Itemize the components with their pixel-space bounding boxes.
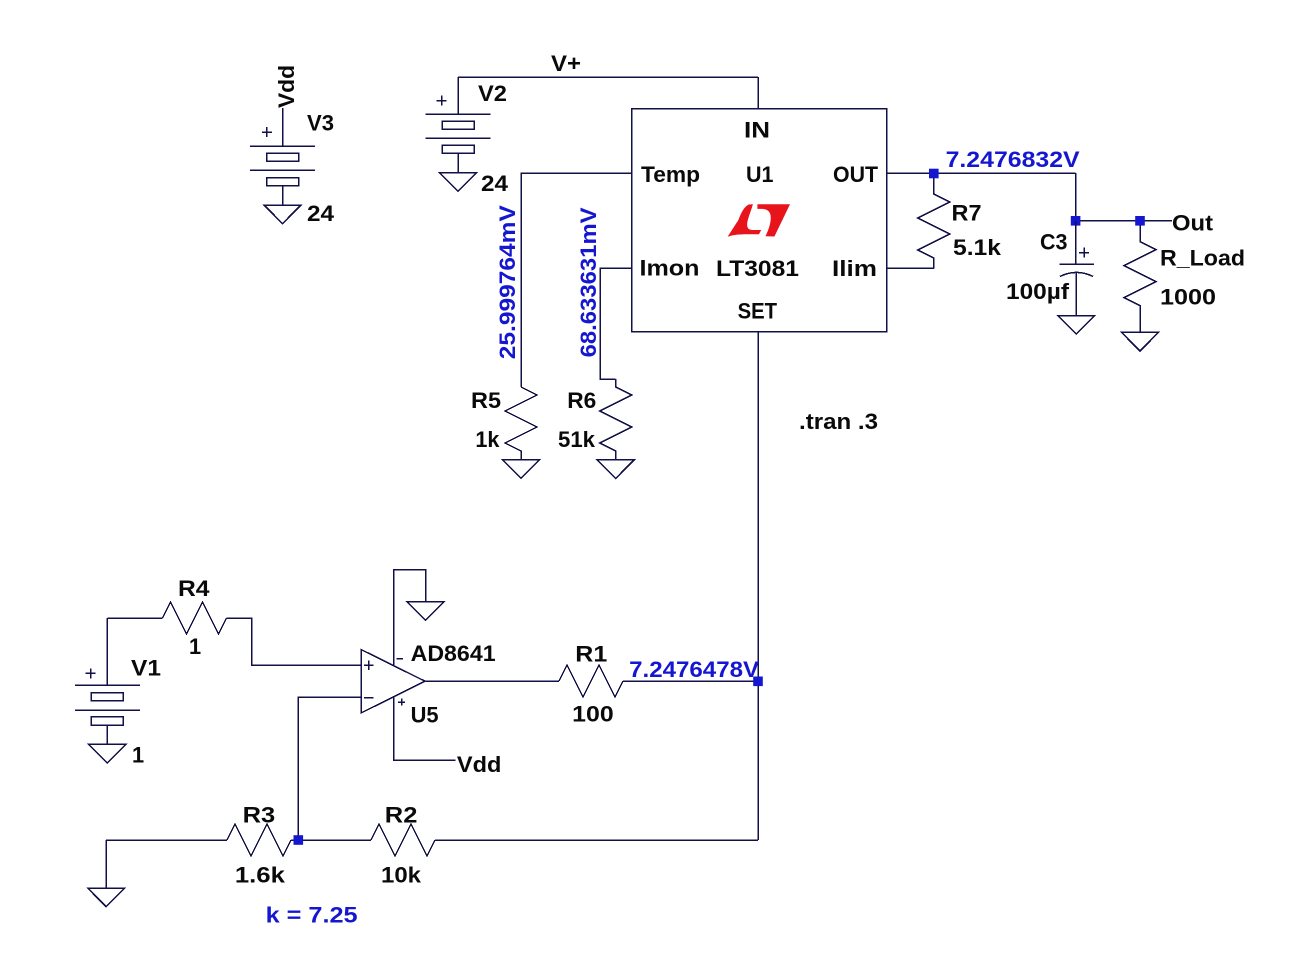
node junction (C3 top) (1071, 216, 1081, 226)
wire OUT pin to C3 branch (887, 172, 1076, 174)
voltage source V3 (250, 127, 315, 205)
resistor R6 (600, 379, 632, 460)
node junction (SET net / R1) (753, 677, 763, 687)
svg-text:U5: U5 (411, 703, 439, 728)
resistor R2 (371, 824, 435, 856)
op-amp power bottom wire to Vdd (394, 697, 456, 760)
ground (R6) (597, 460, 634, 479)
svg-text:Vdd: Vdd (274, 65, 299, 108)
svg-text:V+: V+ (551, 51, 581, 76)
resistor R_Load (1124, 225, 1156, 332)
resistor R3 (227, 824, 291, 856)
svg-text:24: 24 (481, 171, 508, 196)
wire R4 to op-amp +in (227, 618, 362, 665)
wire to ground (bottom left) (105, 840, 107, 888)
node junction (feedback) (294, 835, 304, 845)
ground (V1) (89, 744, 126, 763)
wire bottom net left (106, 839, 227, 841)
svg-text:V2: V2 (478, 81, 507, 106)
svg-text:51k: 51k (558, 427, 596, 452)
svg-text:1: 1 (189, 634, 201, 659)
svg-text:R5: R5 (471, 388, 501, 413)
op-amp power top wire to ground (394, 570, 426, 666)
wire op-amp out to R1 (425, 680, 559, 682)
svg-text:10k: 10k (381, 862, 422, 887)
svg-text:LT3081: LT3081 (716, 256, 799, 281)
svg-text:OUT: OUT (833, 162, 879, 187)
svg-text:R2: R2 (385, 803, 418, 828)
svg-text:R3: R3 (243, 803, 276, 828)
power marker plus (398, 699, 405, 706)
wire R2 to SET net (435, 839, 758, 841)
wire V+ net (458, 76, 758, 78)
svg-text:U1: U1 (746, 162, 774, 187)
wire R7 to Ilim pin (887, 267, 934, 269)
op-amp -input marker (364, 697, 374, 699)
svg-text:1000: 1000 (1160, 285, 1216, 310)
svg-text:Temp: Temp (641, 162, 700, 187)
svg-text:R4: R4 (178, 576, 210, 601)
svg-text:Vdd: Vdd (457, 752, 502, 777)
svg-text:1: 1 (132, 743, 144, 768)
svg-text:7.2476478V: 7.2476478V (629, 657, 760, 682)
op-amp +input marker (364, 661, 374, 671)
svg-text:7.2476832V: 7.2476832V (946, 147, 1081, 172)
resistor R4 (163, 602, 227, 634)
svg-text:IN: IN (744, 118, 770, 143)
svg-text:Ilim: Ilim (832, 256, 877, 281)
svg-text:R6: R6 (567, 388, 596, 413)
ground (bottom left) (88, 888, 125, 907)
wire Out net (1076, 220, 1172, 222)
svg-text:100: 100 (572, 702, 614, 727)
op-amp U1 box (LT3081) (632, 109, 887, 332)
svg-text:Imon: Imon (640, 256, 700, 281)
svg-text:24: 24 (307, 201, 334, 226)
wire Vdd to V3 (282, 108, 284, 146)
svg-text:AD8641: AD8641 (411, 641, 496, 666)
node junction (OUT) (929, 169, 939, 179)
svg-text:1.6k: 1.6k (235, 862, 286, 887)
wire V1 to R4 (107, 617, 162, 619)
svg-text:Out: Out (1172, 211, 1213, 236)
ground (C3) (1058, 316, 1095, 335)
op-amp U5 triangle (361, 650, 425, 714)
resistor R7 (918, 178, 950, 268)
LT logo (728, 204, 790, 237)
svg-text:25.999764mV: 25.999764mV (495, 205, 520, 360)
resistor R1 (559, 665, 623, 697)
ground (R5) (503, 460, 540, 479)
wire Imon pin to R6 (600, 268, 632, 379)
node junction (R_Load top) (1135, 216, 1145, 226)
power marker minus (397, 658, 404, 660)
wire R3 to R2 (291, 839, 371, 841)
svg-text:68.633631mV: 68.633631mV (576, 207, 601, 357)
svg-text:100µf: 100µf (1006, 279, 1070, 304)
svg-text:SET: SET (738, 299, 778, 324)
svg-text:R7: R7 (952, 201, 982, 226)
svg-text:V1: V1 (131, 656, 161, 681)
wire R1 to SET net (623, 680, 758, 682)
svg-text:C3: C3 (1040, 229, 1068, 254)
wire Temp pin to R5 (521, 173, 632, 387)
wire feedback node to op-amp -in (298, 697, 361, 840)
svg-text:k = 7.25: k = 7.25 (266, 903, 358, 928)
svg-text:R_Load: R_Load (1160, 246, 1245, 271)
svg-text:1k: 1k (475, 427, 500, 452)
ground (V2) (440, 173, 477, 192)
svg-text:V3: V3 (307, 111, 334, 136)
voltage source V1 (75, 618, 140, 744)
capacitor C3 (1060, 221, 1094, 316)
svg-text:.tran .3: .tran .3 (799, 409, 878, 434)
wire down to Out node (1075, 173, 1077, 221)
voltage source V2 (426, 77, 491, 173)
ground (op-amp V-) (407, 602, 444, 621)
wire SET pin down (757, 331, 759, 840)
svg-text:5.1k: 5.1k (953, 235, 1002, 260)
ground (V3) (264, 205, 301, 224)
svg-text:R1: R1 (575, 642, 607, 667)
wire V+ to IN pin (757, 77, 759, 109)
ground (R_Load) (1122, 332, 1159, 351)
resistor R5 (505, 387, 537, 460)
